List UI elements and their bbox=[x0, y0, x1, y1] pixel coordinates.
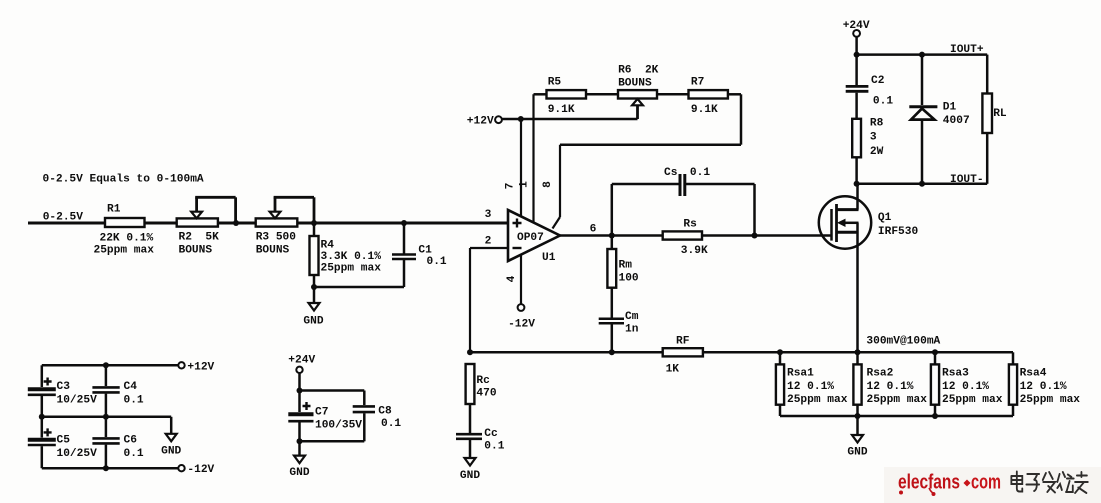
resistor Rsa1 bbox=[776, 352, 848, 416]
node junction pin7 supply bbox=[518, 116, 524, 122]
capacitor C7 bbox=[288, 391, 362, 442]
wire +12V to R6 wiper bbox=[502, 118, 638, 121]
node +24V terminal top bbox=[843, 20, 870, 37]
svg-text:C8: C8 bbox=[378, 405, 392, 417]
svg-text:25ppm max: 25ppm max bbox=[867, 394, 928, 406]
resistor R5 bbox=[547, 77, 587, 116]
wire +24V down bbox=[298, 373, 301, 391]
svg-text:6: 6 bbox=[590, 224, 597, 236]
capacitor C3 bbox=[28, 365, 97, 417]
svg-text:7: 7 bbox=[505, 183, 517, 190]
resistor Rsa2 bbox=[853, 352, 927, 416]
potentiometer R3 bbox=[256, 197, 314, 256]
svg-text:25ppm max: 25ppm max bbox=[942, 394, 1003, 406]
node junction D1 bottom bbox=[919, 181, 925, 187]
wire R7 to pin 8 bbox=[553, 94, 742, 228]
svg-text:0.1: 0.1 bbox=[124, 394, 144, 406]
svg-text:470: 470 bbox=[476, 388, 496, 400]
svg-text:-12V: -12V bbox=[508, 319, 535, 331]
svg-text:12 0.1%: 12 0.1% bbox=[787, 381, 834, 393]
wire pin 4 to -12V bbox=[520, 255, 522, 304]
resistor R1 bbox=[94, 204, 155, 257]
capacitor C2 bbox=[846, 55, 894, 119]
node junction after R2 bbox=[233, 220, 239, 226]
node +12V terminal bbox=[467, 116, 502, 128]
svg-text:R1: R1 bbox=[107, 204, 121, 216]
wire op-amp output row bbox=[560, 234, 832, 237]
capacitor Cc bbox=[456, 404, 505, 452]
wire pin 1 to R5 bbox=[534, 94, 547, 222]
svg-text:Rsa1: Rsa1 bbox=[787, 367, 814, 379]
svg-text:0.1: 0.1 bbox=[873, 96, 893, 108]
svg-text:100/35V: 100/35V bbox=[315, 420, 362, 432]
svg-text:R2 5K: R2 5K bbox=[179, 232, 220, 244]
wire Rsa bottom row bbox=[780, 415, 1013, 418]
resistor Rsa4 bbox=[1009, 364, 1080, 416]
resistor Rs bbox=[663, 218, 708, 257]
svg-text:Rsa3: Rsa3 bbox=[942, 367, 969, 379]
svg-text:C1: C1 bbox=[418, 245, 432, 257]
node junction Cs right / Rs right bbox=[752, 233, 758, 239]
svg-text:0.1: 0.1 bbox=[690, 167, 710, 179]
node junction output/Cs/Rm bbox=[609, 233, 615, 239]
svg-text:25ppm max: 25ppm max bbox=[787, 394, 848, 406]
resistor Rsa3 bbox=[931, 352, 1003, 416]
node junction source/Rsa2 bbox=[855, 349, 861, 355]
node +24V terminal bbox=[288, 355, 315, 373]
svg-text:4007: 4007 bbox=[943, 115, 970, 127]
svg-text:GND: GND bbox=[847, 447, 867, 459]
svg-text:2: 2 bbox=[485, 236, 492, 248]
logo elecfans.com bbox=[898, 472, 1001, 497]
wire IOUT- row bbox=[857, 183, 988, 186]
capacitor C4 bbox=[92, 365, 144, 417]
ground mid row bbox=[161, 417, 181, 458]
svg-text:4: 4 bbox=[506, 275, 518, 282]
resistor RL bbox=[982, 55, 1007, 184]
wire +24V down bbox=[855, 37, 858, 55]
svg-text:0.1: 0.1 bbox=[124, 448, 144, 460]
resistor R4 bbox=[310, 223, 382, 287]
svg-text:12 0.1%: 12 0.1% bbox=[942, 381, 989, 393]
svg-text:OP07: OP07 bbox=[517, 232, 544, 244]
wire +12V row bbox=[42, 364, 179, 367]
wire mid ground row bbox=[42, 416, 171, 419]
svg-text:3.9K: 3.9K bbox=[681, 245, 708, 257]
node junction Rsa2 bottom bbox=[855, 413, 861, 419]
wire R5 to R6 bbox=[586, 93, 618, 96]
svg-text:3: 3 bbox=[870, 132, 877, 144]
svg-text:Rsa4: Rsa4 bbox=[1020, 367, 1047, 379]
wire source down bbox=[856, 223, 859, 352]
svg-text:RL: RL bbox=[993, 108, 1007, 120]
svg-text:0-2.5V Equals to 0-100mA: 0-2.5V Equals to 0-100mA bbox=[43, 174, 204, 186]
node junction mid left bbox=[39, 414, 45, 420]
potentiometer R6 bbox=[618, 65, 659, 119]
wire C1 bottom to R4 bbox=[314, 286, 404, 289]
svg-text:R4: R4 bbox=[321, 239, 335, 251]
capacitor Cm bbox=[599, 288, 639, 353]
svg-text:8: 8 bbox=[542, 181, 554, 188]
svg-text:25ppm max: 25ppm max bbox=[321, 263, 382, 275]
svg-text:R8: R8 bbox=[870, 118, 884, 130]
svg-text:1n: 1n bbox=[625, 324, 639, 336]
svg-text:22K 0.1%: 22K 0.1% bbox=[100, 232, 154, 244]
resistor RF bbox=[663, 335, 703, 375]
svg-text:D1: D1 bbox=[943, 101, 957, 113]
svg-text:Rsa2: Rsa2 bbox=[867, 367, 894, 379]
svg-text:1: 1 bbox=[519, 181, 531, 188]
svg-text:Cs: Cs bbox=[664, 167, 678, 179]
node junction C1 top bbox=[401, 220, 407, 226]
capacitor Cs bbox=[612, 167, 755, 236]
svg-text:RF: RF bbox=[676, 335, 690, 347]
svg-text:GND: GND bbox=[303, 316, 323, 328]
svg-text:R6 2K: R6 2K bbox=[618, 65, 659, 77]
svg-text:GND: GND bbox=[161, 446, 181, 458]
svg-text:3.3K 0.1%: 3.3K 0.1% bbox=[321, 251, 382, 263]
node +12V terminal bbox=[178, 361, 214, 373]
node junction R4/C1 bottom bbox=[311, 284, 317, 290]
svg-text:elecfans: elecfans bbox=[898, 472, 960, 494]
svg-text:3: 3 bbox=[485, 209, 492, 221]
svg-text:Q1: Q1 bbox=[878, 212, 892, 224]
resistor R8 bbox=[852, 118, 883, 184]
node junction D1 top bbox=[919, 52, 925, 58]
wire RF row bbox=[470, 351, 1013, 354]
resistor R7 bbox=[689, 77, 728, 116]
svg-text:com: com bbox=[971, 472, 1001, 494]
svg-text:U1: U1 bbox=[542, 252, 556, 264]
svg-text:1K: 1K bbox=[666, 364, 680, 376]
svg-text:Cc: Cc bbox=[484, 428, 498, 440]
svg-text:R7: R7 bbox=[691, 77, 704, 89]
svg-text:IRF530: IRF530 bbox=[878, 226, 919, 238]
node junction RF/Rsa1 bbox=[777, 349, 783, 355]
svg-text:Rc: Rc bbox=[476, 375, 490, 387]
svg-text:C3: C3 bbox=[57, 381, 71, 393]
ground below Cc bbox=[460, 440, 480, 482]
svg-text:IOUT-: IOUT- bbox=[950, 174, 984, 186]
resistor Rc bbox=[466, 364, 497, 404]
wire main input row bbox=[28, 222, 508, 225]
svg-text:BOUNS: BOUNS bbox=[256, 245, 290, 257]
svg-text:C7: C7 bbox=[315, 407, 328, 419]
node junction IOUT+ left bbox=[854, 52, 860, 58]
diode D1 bbox=[909, 55, 969, 184]
node junction R3/R4 bbox=[311, 220, 317, 226]
capacitor C6 bbox=[92, 417, 144, 468]
svg-text:0.1: 0.1 bbox=[484, 440, 504, 452]
wire pin 7 bbox=[520, 119, 522, 216]
svg-text:+12V: +12V bbox=[467, 116, 494, 128]
svg-text:12 0.1%: 12 0.1% bbox=[1020, 381, 1067, 393]
svg-text:0.1: 0.1 bbox=[381, 418, 401, 430]
svg-text:C2: C2 bbox=[871, 75, 885, 87]
svg-text:-12V: -12V bbox=[187, 464, 214, 476]
svg-text:9.1K: 9.1K bbox=[691, 104, 718, 116]
svg-text:Rs: Rs bbox=[683, 218, 697, 230]
svg-text:BOUNS: BOUNS bbox=[618, 78, 652, 90]
wire R6 to R7 bbox=[657, 93, 689, 96]
node junction Rc top bbox=[467, 349, 473, 355]
svg-text:Rm: Rm bbox=[619, 260, 633, 272]
svg-text:0.1: 0.1 bbox=[427, 256, 447, 268]
capacitor C8 bbox=[300, 405, 402, 441]
capacitor C5 bbox=[28, 417, 97, 468]
ground below Rsa bank bbox=[847, 416, 867, 459]
svg-text:+24V: +24V bbox=[288, 355, 315, 367]
svg-text:2W: 2W bbox=[870, 146, 884, 158]
op-amp U1 bbox=[508, 210, 560, 264]
wire -12V row bbox=[42, 467, 179, 470]
node junction C7 top bbox=[297, 388, 303, 394]
node junction IOUT- / drain bbox=[854, 181, 860, 187]
wire Rsa4 corner bbox=[1012, 352, 1015, 364]
node junction C7 bottom bbox=[297, 438, 303, 444]
node -12V terminal bbox=[508, 304, 535, 331]
svg-text:C4: C4 bbox=[124, 381, 138, 393]
ground below R4 bbox=[303, 287, 323, 328]
node -12V terminal bbox=[178, 464, 214, 476]
transistor Q1 bbox=[819, 196, 919, 248]
wire drain up bbox=[856, 184, 859, 210]
logo chinese text 电子发烧友 bbox=[1011, 472, 1087, 494]
svg-text:300mV@100mA: 300mV@100mA bbox=[866, 336, 940, 348]
wire C7 top to C8 bbox=[300, 391, 365, 406]
capacitor C1 bbox=[392, 223, 447, 287]
svg-text:GND: GND bbox=[289, 467, 309, 479]
node junction C6 bottom bbox=[103, 465, 109, 471]
svg-text:IOUT+: IOUT+ bbox=[950, 44, 984, 56]
svg-text:100: 100 bbox=[619, 273, 639, 285]
node junction Cm bottom bbox=[609, 349, 615, 355]
svg-text:Cm: Cm bbox=[625, 311, 639, 323]
svg-text:C5: C5 bbox=[57, 435, 71, 447]
svg-text:C6: C6 bbox=[124, 435, 138, 447]
svg-text:9.1K: 9.1K bbox=[548, 104, 575, 116]
svg-text:12 0.1%: 12 0.1% bbox=[867, 381, 914, 393]
ground below C7 bbox=[289, 441, 309, 479]
node junction C4 top bbox=[103, 362, 109, 368]
svg-text:R3 500: R3 500 bbox=[256, 232, 297, 244]
svg-text:GND: GND bbox=[460, 470, 480, 482]
node junction Rsa3 bottom bbox=[932, 413, 938, 419]
svg-text:R5: R5 bbox=[548, 77, 562, 89]
svg-text:BOUNS: BOUNS bbox=[179, 245, 213, 257]
svg-text:10/25V: 10/25V bbox=[57, 394, 98, 406]
potentiometer R2 bbox=[177, 197, 236, 256]
node junction Rsa3 top bbox=[932, 349, 938, 355]
svg-text:+12V: +12V bbox=[187, 361, 214, 373]
svg-text:25ppm max: 25ppm max bbox=[94, 245, 155, 257]
logo background tint bbox=[884, 467, 1101, 503]
svg-text:25ppm max: 25ppm max bbox=[1020, 394, 1081, 406]
resistor Rm bbox=[607, 236, 639, 288]
node junction mid C4 bbox=[103, 414, 109, 420]
wire pin 2 bbox=[470, 248, 508, 352]
svg-text:10/25V: 10/25V bbox=[57, 448, 98, 460]
wire IOUT+ row bbox=[857, 53, 988, 56]
